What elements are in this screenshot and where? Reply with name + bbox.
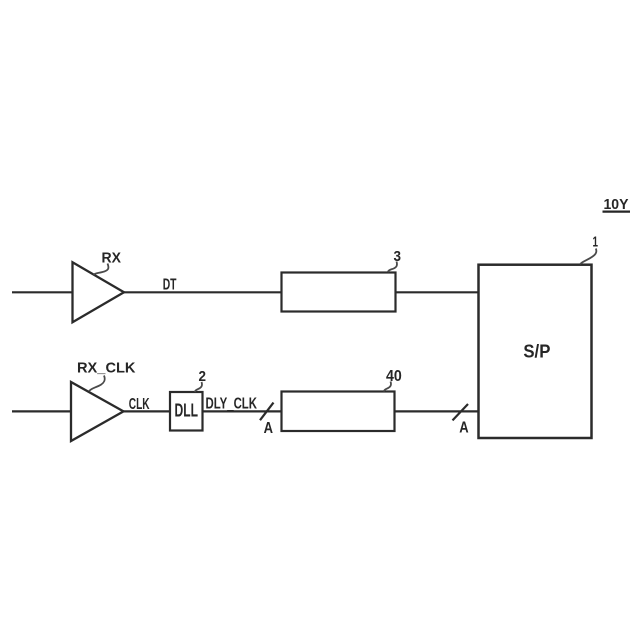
- leader 3: [388, 262, 397, 273]
- svg-text:A: A: [264, 420, 273, 437]
- wire block40 to S/P: [395, 410, 480, 412]
- svg-text:DLL: DLL: [175, 400, 199, 421]
- svg-text:DT: DT: [163, 276, 177, 293]
- svg-text:RX: RX: [102, 251, 122, 267]
- leader RX_CLK: [89, 376, 105, 392]
- leader RX: [94, 264, 109, 275]
- leader 2: [195, 382, 202, 392]
- wire CLK: [124, 410, 171, 412]
- bus slash A left: [260, 403, 274, 421]
- svg-text:S/P: S/P: [523, 341, 550, 362]
- svg-text:40: 40: [386, 368, 402, 385]
- block 40: [282, 392, 395, 432]
- block DLL: [170, 392, 203, 431]
- block 3: [282, 273, 396, 312]
- wire input bottom: [12, 410, 72, 412]
- leader 1: [580, 249, 596, 265]
- svg-text:1: 1: [593, 234, 599, 251]
- figure label 10Y: [603, 196, 631, 213]
- block S/P U1: [479, 265, 592, 438]
- amplifier RX_CLK: [71, 382, 124, 441]
- wire DLY_CLK: [203, 410, 283, 412]
- leader 40: [384, 382, 391, 392]
- bus slash A right: [453, 404, 469, 420]
- wire DT: [124, 291, 282, 293]
- wire input top: [12, 291, 73, 293]
- svg-text:CLK: CLK: [129, 396, 150, 413]
- svg-text:RX_CLK: RX_CLK: [77, 360, 136, 376]
- wire block3 to S/P: [396, 291, 480, 293]
- svg-text:DLY_CLK: DLY_CLK: [206, 395, 258, 412]
- svg-text:A: A: [459, 419, 468, 436]
- amplifier RX: [73, 262, 125, 322]
